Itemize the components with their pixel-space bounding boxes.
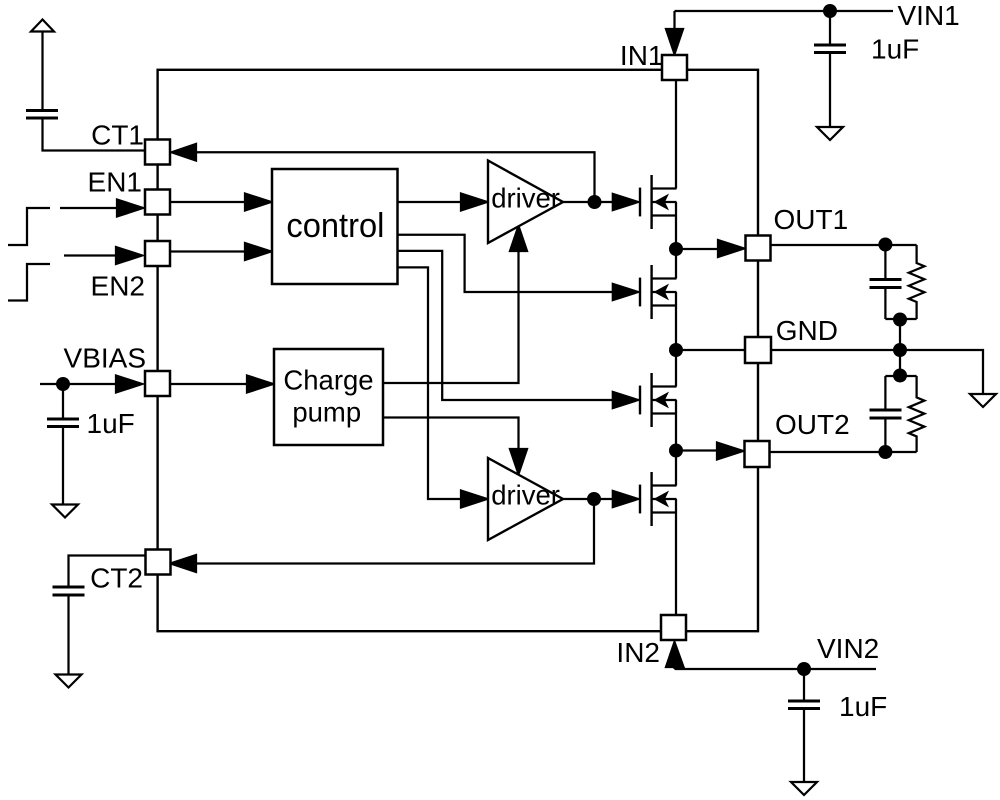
wire OUT1 load bottom rail — [885, 318, 916, 320]
svg-text:VIN1: VIN1 — [898, 0, 960, 31]
svg-text:1uF: 1uF — [871, 34, 919, 65]
junction dot OUT2 load bottom — [878, 445, 892, 459]
capacitor CT2 external — [53, 587, 85, 595]
pin EN1 — [145, 190, 170, 215]
junction dot node OUT2 — [669, 444, 683, 458]
junction dot VIN2 — [797, 662, 811, 676]
arrowhead into M1 gate — [613, 194, 638, 210]
svg-text:EN2: EN2 — [91, 271, 145, 302]
svg-text:pump: pump — [292, 397, 361, 428]
ground VIN2 (open down triangle) — [791, 782, 817, 795]
arrowhead into EN1 pin — [117, 200, 143, 217]
wire GND rail to OUT2 load top — [899, 350, 901, 376]
ground VIN1 (open down triangle) — [817, 127, 843, 140]
capacitor 1uF VBIAS — [47, 419, 79, 427]
svg-text:GND: GND — [776, 315, 838, 346]
wire GND node to pin — [676, 349, 746, 351]
wire VIN1 net — [675, 10, 894, 12]
junction dot driver2 output — [587, 492, 601, 506]
rail symbol top-left (open up triangle) — [31, 20, 54, 32]
arrowhead into driver2 — [461, 491, 487, 508]
svg-text:CT1: CT1 — [91, 120, 144, 151]
svg-text:EN1: EN1 — [88, 167, 142, 198]
svg-text:Charge: Charge — [283, 365, 373, 396]
svg-text:IN2: IN2 — [616, 637, 660, 668]
MOSFET Q2 — [640, 265, 677, 319]
arrowhead into control (EN2) — [245, 243, 271, 260]
wire capacitor to ground — [62, 427, 64, 505]
ground CT2 (open down triangle) — [56, 675, 82, 688]
driver2 triangle — [488, 458, 563, 540]
MOSFET Q1 — [640, 175, 677, 229]
wire capacitor to ground — [803, 709, 805, 783]
junction dot GND rail — [893, 343, 907, 357]
driver1 triangle — [488, 161, 563, 244]
wire IN2 arrow stem — [673, 666, 675, 669]
wire OUT2 to load — [770, 451, 917, 453]
wire capacitor to ground — [67, 595, 69, 675]
junction dot VBIAS — [56, 377, 70, 391]
svg-text:control: control — [286, 207, 384, 245]
ground VBIAS (open down triangle) — [52, 505, 78, 518]
arrowhead into OUT2 pin — [717, 443, 743, 460]
pin CT1 — [145, 140, 170, 165]
arrowhead into OUT1 pin — [718, 240, 744, 257]
junction dot driver1 output — [588, 195, 602, 209]
arrowhead into EN2 pin — [116, 247, 142, 264]
arrowhead down into IN1 pin — [666, 29, 683, 54]
charge pump block — [274, 349, 383, 445]
svg-text:IN1: IN1 — [620, 40, 664, 71]
wire OUT1 load to GND rail — [899, 319, 901, 350]
capacitor OUT1 load — [870, 280, 902, 288]
arrowhead into charge pump — [247, 376, 273, 393]
ground GND (open down triangle) — [970, 394, 996, 407]
wire load capacitor branch OUT2 — [884, 376, 886, 410]
junction dot node GND — [669, 343, 683, 357]
wire CT2 pin to capacitor — [69, 556, 147, 588]
pin IN2 — [661, 615, 686, 640]
junction dot OUT1 load bottom — [893, 313, 907, 327]
capacitor 1uF VIN2 — [788, 701, 820, 709]
wire VIN2 net — [675, 668, 877, 670]
capacitor CT1 external — [26, 111, 58, 119]
wire charge pump out1 to driver1 bottom — [383, 250, 519, 383]
wire EN2 input — [64, 254, 117, 256]
wire control out2 to M2 gate — [398, 235, 613, 292]
wire capacitor to ground — [829, 53, 831, 128]
MOSFET Q3 — [640, 373, 677, 427]
wire bus Q1 source to Q2 drain — [675, 202, 677, 279]
junction dot VIN1 — [823, 4, 837, 18]
svg-text:driver: driver — [491, 183, 560, 214]
pin GND — [745, 337, 771, 363]
wire GND pin to ground — [771, 350, 984, 394]
wire capacitor to bottom rail — [884, 288, 886, 320]
wire control out4 to driver2 — [398, 267, 463, 499]
wire load capacitor branch — [884, 245, 886, 280]
wire VIN1 dot to capacitor — [829, 11, 831, 45]
wire CT2 feedback from driver2 node — [172, 499, 594, 564]
arrowhead up into IN2 pin — [666, 642, 684, 667]
capacitor OUT2 load — [870, 410, 902, 418]
wire VBIAS pin to charge pump — [170, 383, 248, 385]
svg-text:VIN2: VIN2 — [817, 633, 879, 664]
wire control out1 to driver1 — [398, 201, 463, 203]
wire driver2 output — [563, 498, 612, 500]
arrowhead into control (EN1) — [245, 194, 271, 211]
wire bus IN1 to Q1 drain — [675, 80, 677, 189]
arrowhead down into driver2 — [510, 449, 527, 474]
svg-text:OUT1: OUT1 — [774, 204, 849, 235]
EN2 step waveform symbol — [8, 264, 50, 301]
pin IN1 — [662, 55, 687, 80]
svg-text:VBIAS: VBIAS — [64, 343, 146, 374]
wire VBIAS input — [40, 383, 117, 385]
MOSFET Q4 — [640, 472, 677, 526]
arrowhead into driver1 — [461, 194, 487, 211]
wire control out3 to M3 gate — [398, 251, 613, 400]
svg-text:driver: driver — [491, 480, 560, 511]
wire EN1 pin to control — [170, 201, 246, 203]
wire OUT1 node to pin — [676, 248, 718, 250]
wire CT1 feedback from driver1 node — [172, 152, 595, 202]
wire capacitor to CT1 pin — [43, 118, 146, 151]
capacitor 1uF VIN1 — [814, 45, 846, 53]
junction dot node OUT1 — [669, 242, 683, 256]
arrowhead into VBIAS pin — [116, 376, 142, 393]
wire OUT2 node to pin — [676, 449, 718, 451]
arrowhead into M3 gate — [613, 392, 638, 408]
junction dot OUT2 load top — [893, 369, 907, 383]
wire charge pump out2 to driver2 top — [383, 418, 519, 450]
wire VIN1 down to IN1 — [673, 11, 675, 32]
wire rail to capacitor C-CT1 — [41, 32, 43, 111]
pin OUT1 — [746, 236, 771, 261]
arrowhead into CT2 pin — [171, 555, 197, 572]
resistor OUT2 load — [909, 376, 925, 452]
svg-text:1uF: 1uF — [87, 408, 135, 439]
arrowhead into M2 gate — [613, 284, 638, 300]
wire EN2 pin to control — [170, 250, 246, 252]
pin OUT2 — [745, 441, 770, 467]
wire OUT2 load top rail — [885, 375, 916, 377]
svg-text:CT2: CT2 — [90, 563, 143, 594]
arrowhead up into driver1 — [510, 226, 527, 251]
EN1 step waveform symbol — [8, 208, 50, 245]
wire OUT1 to load — [771, 244, 917, 246]
pin CT2 — [146, 550, 171, 575]
svg-text:OUT2: OUT2 — [775, 409, 850, 440]
control block U-control — [272, 169, 398, 284]
arrowhead into CT1 pin — [172, 144, 197, 161]
svg-text:1uF: 1uF — [839, 691, 887, 722]
wire bus Q2 source to Q3 drain — [675, 292, 677, 387]
wire VBIAS dot to capacitor — [62, 384, 64, 419]
resistor OUT1 load — [909, 245, 925, 319]
wire capacitor to OUT2 wire — [884, 418, 886, 452]
wire bus Q4 source to IN2 — [675, 499, 677, 615]
junction dot OUT1 load — [878, 238, 892, 252]
wire driver1 output — [563, 201, 612, 203]
wire EN1 input — [60, 207, 118, 209]
wire bus Q3 source to Q4 drain — [675, 400, 677, 486]
pin VBIAS — [145, 371, 170, 396]
wire VIN2 dot to capacitor — [803, 669, 805, 701]
pin EN2 — [145, 241, 170, 266]
arrowhead into M4 gate — [613, 491, 638, 507]
IC boundary box — [158, 70, 758, 631]
